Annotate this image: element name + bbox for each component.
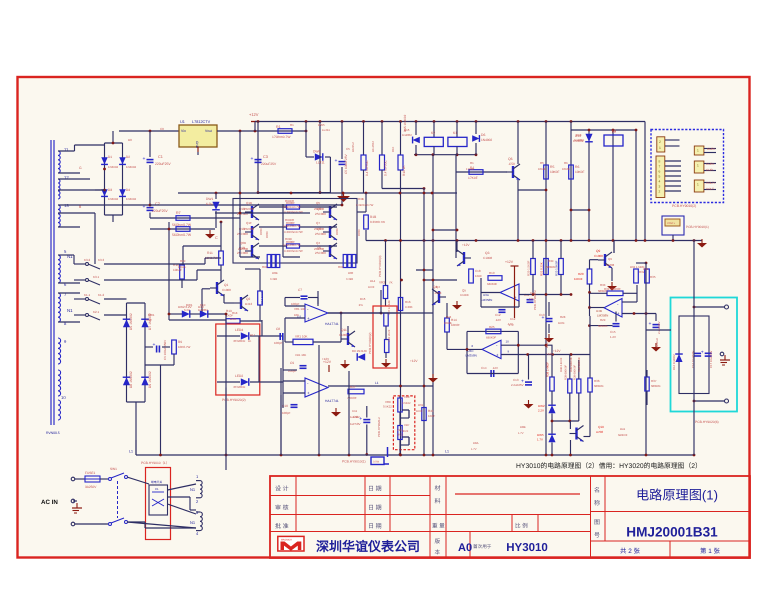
svg-text:PCB.HY9020-2: PCB.HY9020-2 xyxy=(377,417,381,437)
svg-text:1N4002: 1N4002 xyxy=(126,165,137,169)
svg-text:+: + xyxy=(251,156,254,162)
svg-text:0.39Ohm0.7W: 0.39Ohm0.7W xyxy=(284,249,303,253)
svg-text:R000R: R000R xyxy=(285,199,294,203)
svg-text:2SC000: 2SC000 xyxy=(244,207,255,211)
svg-text:共 2 张: 共 2 张 xyxy=(620,547,640,555)
svg-text:R1B: R1B xyxy=(370,215,376,219)
svg-text:R0B: R0B xyxy=(272,271,278,275)
svg-text:3K22: 3K22 xyxy=(397,434,404,437)
svg-text:680K0F: 680K0F xyxy=(546,265,556,269)
svg-text:10K0F: 10K0F xyxy=(550,170,559,174)
svg-text:D16 1N4002: D16 1N4002 xyxy=(672,354,676,370)
svg-text:N1: N1 xyxy=(190,520,196,525)
svg-text:VR8: VR8 xyxy=(404,395,410,399)
svg-text:680K0F: 680K0F xyxy=(486,336,496,340)
svg-text:PCB.HY9010(1): PCB.HY9010(1) xyxy=(342,460,366,464)
svg-text:C13: C13 xyxy=(513,378,519,382)
svg-text:0.39Ohm0.7W: 0.39Ohm0.7W xyxy=(283,225,301,228)
svg-text:10K0F: 10K0F xyxy=(444,321,453,325)
svg-text:R11: R11 xyxy=(207,251,213,255)
svg-text:继电开关: 继电开关 xyxy=(151,480,162,484)
svg-text:R050: R050 xyxy=(265,231,269,238)
svg-text:Vin: Vin xyxy=(181,129,186,133)
svg-text:1K0F: 1K0F xyxy=(428,414,435,418)
svg-text:0.39R0.7W: 0.39R0.7W xyxy=(370,220,385,224)
svg-text:R6: R6 xyxy=(575,165,579,169)
svg-text:2SC000: 2SC000 xyxy=(237,232,248,236)
svg-text:56Ohm0.7W: 56Ohm0.7W xyxy=(172,233,192,237)
svg-text:Q4: Q4 xyxy=(436,285,440,289)
svg-text:首次用于: 首次用于 xyxy=(473,544,492,549)
svg-text:LM358N: LM358N xyxy=(466,354,477,358)
svg-text:R30: R30 xyxy=(548,259,554,263)
svg-text:0.5K22: 0.5K22 xyxy=(402,402,411,405)
svg-text:C1008: C1008 xyxy=(483,256,492,260)
svg-text:R39 680K0F: R39 680K0F xyxy=(570,357,573,372)
svg-text:8: 8 xyxy=(659,160,661,164)
svg-text:R12 1K0F: R12 1K0F xyxy=(260,291,264,304)
svg-text:R10: R10 xyxy=(391,146,395,152)
svg-text:D1: D1 xyxy=(108,155,112,159)
svg-text:LM358N: LM358N xyxy=(597,314,608,318)
svg-text:R1: R1 xyxy=(470,161,474,165)
svg-text:VR8: VR8 xyxy=(385,400,391,404)
svg-text:HA17741: HA17741 xyxy=(325,322,339,326)
svg-text:C1: C1 xyxy=(155,487,159,491)
svg-text:6.2V: 6.2V xyxy=(184,308,190,312)
svg-text:0.39Ohm0.7W: 0.39Ohm0.7W xyxy=(356,204,374,207)
svg-text:0.39Ohm0.7W: 0.39Ohm0.7W xyxy=(283,244,301,247)
svg-text:+: + xyxy=(307,316,310,321)
svg-text:D2: D2 xyxy=(126,155,130,159)
svg-text:A708: A708 xyxy=(596,430,603,434)
svg-text:R14: R14 xyxy=(370,279,376,283)
svg-text:Vout: Vout xyxy=(205,129,212,133)
svg-text:R38 2.4K0F: R38 2.4K0F xyxy=(546,362,550,377)
svg-text:C12: C12 xyxy=(510,317,516,321)
svg-text:680K0F: 680K0F xyxy=(598,324,608,328)
svg-text:1N4002: 1N4002 xyxy=(126,197,137,201)
svg-text:HA17741: HA17741 xyxy=(325,399,339,403)
svg-text:CUR+: CUR+ xyxy=(707,147,716,151)
svg-text:C13: C13 xyxy=(539,313,545,317)
svg-text:CUR-: CUR- xyxy=(706,168,714,172)
svg-text:A24FL8: A24FL8 xyxy=(655,338,659,348)
svg-text:R050: R050 xyxy=(357,229,361,236)
svg-text:1: 1 xyxy=(697,149,699,153)
svg-text:2SC000: 2SC000 xyxy=(314,247,325,251)
svg-text:R9: R9 xyxy=(178,340,182,344)
svg-text:1N4002: 1N4002 xyxy=(198,308,208,312)
svg-text:+: + xyxy=(143,156,146,162)
svg-text:R7: R7 xyxy=(176,211,181,215)
svg-text:R10 2K: R10 2K xyxy=(402,164,406,176)
svg-text:D15: D15 xyxy=(360,297,366,301)
svg-text:PCB.HY9020(2): PCB.HY9020(2) xyxy=(368,332,372,354)
svg-text:MAGNICH: MAGNICH xyxy=(281,538,292,541)
svg-text:K2.1: K2.1 xyxy=(93,310,100,314)
svg-text:L1: L1 xyxy=(129,450,133,454)
svg-text:1N4002: 1N4002 xyxy=(108,197,119,201)
svg-text:日 期: 日 期 xyxy=(368,505,382,512)
svg-text:3A250V: 3A250V xyxy=(85,485,97,489)
svg-text:D3: D3 xyxy=(108,188,112,192)
svg-text:C1: C1 xyxy=(158,155,163,159)
svg-text:R38 2.4K0F: R38 2.4K0F xyxy=(560,357,563,372)
svg-text:日 期: 日 期 xyxy=(368,486,382,493)
svg-text:R000R: R000R xyxy=(285,218,294,222)
svg-text:7K: 7K xyxy=(389,281,393,285)
svg-text:PCB.HY9010(3): PCB.HY9010(3) xyxy=(378,255,382,277)
svg-text:1: 1 xyxy=(659,146,661,150)
svg-text:4: 4 xyxy=(659,180,661,184)
svg-text:A0: A0 xyxy=(458,542,472,554)
svg-text:.12V: .12V xyxy=(495,318,501,322)
svg-text:R19: R19 xyxy=(489,271,495,275)
svg-text:图: 图 xyxy=(594,519,600,526)
svg-text:DW5: DW5 xyxy=(537,433,544,437)
svg-text:D13: D13 xyxy=(576,133,582,137)
svg-text:VR1 10K: VR1 10K xyxy=(294,307,306,311)
svg-text:VOLT+: VOLT+ xyxy=(706,181,716,185)
svg-text:C18: C18 xyxy=(475,269,481,273)
svg-text:料: 料 xyxy=(435,497,441,505)
svg-text:0.47uF50C: 0.47uF50C xyxy=(365,160,369,176)
svg-text:10K0.7W: 10K0.7W xyxy=(178,345,191,349)
svg-text:DW2: DW2 xyxy=(538,404,545,408)
svg-text:17K0F: 17K0F xyxy=(466,167,475,171)
svg-text:2SC000: 2SC000 xyxy=(244,227,255,231)
svg-text:2: 2 xyxy=(659,190,661,194)
svg-text:VR2 2K2F: VR2 2K2F xyxy=(388,329,391,342)
svg-text:VR1 10K: VR1 10K xyxy=(295,335,308,339)
svg-text:C0: C0 xyxy=(160,127,164,131)
svg-text:R20: R20 xyxy=(578,272,584,276)
svg-text:+: + xyxy=(143,204,146,210)
svg-text:680K0F: 680K0F xyxy=(598,289,608,293)
svg-text:C14: C14 xyxy=(481,366,487,370)
svg-text:+12V: +12V xyxy=(249,112,259,117)
svg-text:3: 3 xyxy=(659,185,661,189)
svg-text:Q1: Q1 xyxy=(224,283,228,287)
svg-text:+: + xyxy=(307,391,310,396)
svg-text:+: + xyxy=(496,352,499,357)
svg-text:10K0F: 10K0F xyxy=(575,170,584,174)
svg-text:2SC000: 2SC000 xyxy=(238,247,249,251)
svg-text:K2: K2 xyxy=(431,131,435,135)
svg-text:Q11: Q11 xyxy=(341,328,347,332)
svg-text:PCB.HY9020(6): PCB.HY9020(6) xyxy=(695,420,719,424)
svg-text:.9%: .9% xyxy=(358,303,363,307)
svg-text:R41: R41 xyxy=(620,427,626,431)
svg-text:C11: C11 xyxy=(352,409,357,413)
svg-text:Q3: Q3 xyxy=(485,251,490,255)
svg-text:C1008: C1008 xyxy=(339,333,348,337)
svg-text:R050: R050 xyxy=(259,228,263,235)
svg-text:比 例: 比 例 xyxy=(515,523,528,530)
svg-text:0.39R: 0.39R xyxy=(346,278,353,281)
svg-text:C5 100uF25V: C5 100uF25V xyxy=(344,153,348,174)
svg-text:6.2V: 6.2V xyxy=(206,202,213,206)
svg-text:1K0F: 1K0F xyxy=(416,410,423,413)
svg-text:100pF: 100pF xyxy=(291,302,300,306)
svg-text:R050: R050 xyxy=(335,228,339,235)
svg-text:重 量: 重 量 xyxy=(432,523,445,530)
svg-text:R5: R5 xyxy=(550,165,554,169)
svg-text:R18: R18 xyxy=(232,311,238,315)
svg-text:220uF25V: 220uF25V xyxy=(155,162,171,166)
svg-text:PCB.HY9010(1): PCB.HY9010(1) xyxy=(686,225,709,229)
svg-text:+: + xyxy=(701,350,704,356)
svg-text:17K0F: 17K0F xyxy=(468,176,478,180)
svg-text:DW1: DW1 xyxy=(148,313,155,317)
svg-text:R29 1.5K0F: R29 1.5K0F xyxy=(527,260,531,276)
svg-text:5: 5 xyxy=(659,175,661,179)
svg-text:C12: C12 xyxy=(495,313,501,317)
svg-text:+12V: +12V xyxy=(410,359,418,363)
svg-text:680K0F: 680K0F xyxy=(594,384,604,388)
svg-text:G: G xyxy=(79,166,82,170)
svg-text:U4B: U4B xyxy=(596,309,602,313)
svg-text:R1: R1 xyxy=(276,125,281,129)
svg-text:C1008: C1008 xyxy=(222,288,231,292)
svg-text:C5: C5 xyxy=(346,147,350,151)
svg-text:版: 版 xyxy=(435,538,441,545)
svg-text:2SC000: 2SC000 xyxy=(237,251,248,255)
svg-text:LM358N: LM358N xyxy=(481,298,492,302)
svg-text:R36: R36 xyxy=(594,379,600,383)
svg-text:R00: R00 xyxy=(262,265,268,269)
svg-text:D10: D10 xyxy=(200,303,206,307)
svg-text:本: 本 xyxy=(435,549,441,556)
svg-text:0.39R: 0.39R xyxy=(270,278,277,281)
svg-text:K1.1: K1.1 xyxy=(84,293,91,297)
svg-text:AC IN: AC IN xyxy=(41,499,58,506)
svg-text:U1: U1 xyxy=(180,120,185,124)
svg-text:1N4002: 1N4002 xyxy=(108,165,119,169)
svg-text:10K0F: 10K0F xyxy=(562,167,571,171)
svg-text:Q10: Q10 xyxy=(598,425,604,429)
svg-text:R28: R28 xyxy=(560,315,566,319)
svg-text:D5 1N5002: D5 1N5002 xyxy=(129,313,133,330)
svg-text:10K0F: 10K0F xyxy=(451,323,460,327)
svg-text:LL411: LL411 xyxy=(322,128,330,132)
svg-text:.C50: .C50 xyxy=(508,162,515,166)
svg-text:U3A: U3A xyxy=(483,293,489,297)
svg-text:D0: D0 xyxy=(128,138,132,142)
svg-text:R17: R17 xyxy=(250,333,256,337)
svg-text:1K0F: 1K0F xyxy=(368,286,375,289)
svg-text:R25: R25 xyxy=(489,325,495,329)
svg-text:1: 1 xyxy=(697,183,699,187)
svg-text:17Ohm0.7W: 17Ohm0.7W xyxy=(272,135,291,139)
svg-text:称: 称 xyxy=(594,499,600,507)
svg-text:C3: C3 xyxy=(263,155,268,159)
svg-text:D8 1N5002: D8 1N5002 xyxy=(129,371,133,388)
svg-text:45%RED: 45%RED xyxy=(233,339,246,343)
svg-text:DW1: DW1 xyxy=(206,197,213,201)
svg-text:+: + xyxy=(335,158,338,164)
svg-text:10K2F: 10K2F xyxy=(178,265,187,269)
svg-text:C1008: C1008 xyxy=(606,263,615,267)
svg-text:R39 680K0F: R39 680K0F xyxy=(574,365,577,380)
svg-text:LED4: LED4 xyxy=(235,328,243,332)
svg-text:K3: K3 xyxy=(612,130,616,134)
svg-text:R090: R090 xyxy=(285,237,292,241)
svg-text:2SC000: 2SC000 xyxy=(315,251,326,255)
svg-text:R37: R37 xyxy=(651,379,657,383)
svg-text:680K0F: 680K0F xyxy=(618,434,628,437)
svg-text:10K0F: 10K0F xyxy=(538,167,547,171)
svg-text:2SC000: 2SC000 xyxy=(315,232,326,236)
svg-text:+12V: +12V xyxy=(322,357,329,361)
svg-text:L1: L1 xyxy=(445,450,449,454)
svg-text:1N4002: 1N4002 xyxy=(402,133,412,137)
svg-text:1N4002: 1N4002 xyxy=(481,138,492,142)
svg-text:K3.3: K3.3 xyxy=(98,258,105,262)
svg-text:1.2V: 1.2V xyxy=(610,335,616,339)
svg-text:10: 10 xyxy=(506,340,510,344)
svg-text:Q9: Q9 xyxy=(596,249,600,253)
svg-text:R3B: R3B xyxy=(358,197,364,201)
svg-text:ACJ-FV: ACJ-FV xyxy=(545,338,549,348)
svg-text:D8B: D8B xyxy=(520,425,526,429)
svg-text:A0JPL2: A0JPL2 xyxy=(351,142,355,152)
svg-text:LL411: LL411 xyxy=(316,161,325,165)
svg-text:1K0F: 1K0F xyxy=(230,317,237,321)
svg-text:1uF50V: 1uF50V xyxy=(350,422,361,426)
svg-text:Q1B: Q1B xyxy=(246,201,252,205)
svg-text:VOLT-: VOLT- xyxy=(706,187,715,191)
svg-text:C1008: C1008 xyxy=(460,293,469,297)
svg-text:+12V: +12V xyxy=(546,352,553,356)
svg-text:R00: R00 xyxy=(348,271,354,275)
svg-text:DW6: DW6 xyxy=(313,150,320,154)
svg-text:HMJ20001B31: HMJ20001B31 xyxy=(626,525,718,540)
svg-text:220uF25V: 220uF25V xyxy=(261,162,277,166)
svg-text:1N4002: 1N4002 xyxy=(574,138,584,142)
svg-text:100pF: 100pF xyxy=(274,341,283,345)
svg-text:R5: R5 xyxy=(540,161,544,165)
svg-text:HY3010的电路原理图（2）借用：HY3020的电路原理图: HY3010的电路原理图（2）借用：HY3020的电路原理图（2） xyxy=(516,462,702,470)
svg-text:R39 680K0F: R39 680K0F xyxy=(578,357,581,372)
svg-text:+: + xyxy=(617,311,620,316)
svg-text:VR3: VR3 xyxy=(379,281,385,285)
svg-text:A0.47R2: A0.47R2 xyxy=(371,141,375,152)
svg-text:0.39K: 0.39K xyxy=(405,305,413,309)
svg-text:C11: C11 xyxy=(530,291,535,295)
svg-text:1uF50V: 1uF50V xyxy=(350,415,360,419)
svg-text:45%RED: 45%RED xyxy=(233,385,246,389)
svg-text:VR7: VR7 xyxy=(404,423,410,427)
svg-text:+: + xyxy=(649,321,652,327)
svg-text:D4: D4 xyxy=(126,188,130,192)
svg-text:材: 材 xyxy=(435,484,441,492)
svg-text:1K0F: 1K0F xyxy=(475,274,482,278)
svg-text:1K0F: 1K0F xyxy=(558,321,565,325)
svg-text:C7: C7 xyxy=(298,288,302,292)
svg-text:N1: N1 xyxy=(67,308,73,313)
svg-text:1.7V: 1.7V xyxy=(471,448,477,451)
svg-text:C9: C9 xyxy=(290,361,294,365)
svg-text:0.47uF50C: 0.47uF50C xyxy=(384,160,388,176)
svg-text:R00: R00 xyxy=(338,265,344,269)
svg-text:电路原理图(1): 电路原理图(1) xyxy=(636,488,718,503)
svg-text:R21 0.22K: R21 0.22K xyxy=(540,262,544,276)
svg-text:日 期: 日 期 xyxy=(368,523,382,530)
svg-text:R31: R31 xyxy=(418,403,424,407)
svg-text:2.2V: 2.2V xyxy=(538,409,544,413)
svg-text:0.5W: 0.5W xyxy=(373,461,380,464)
svg-text:R31: R31 xyxy=(428,409,434,413)
svg-text:R27: R27 xyxy=(350,385,356,389)
svg-text:10K: 10K xyxy=(294,313,299,317)
svg-text:Q5: Q5 xyxy=(316,201,320,205)
svg-text:D8 1N4148: D8 1N4148 xyxy=(352,349,367,353)
svg-text:VOLT+: VOLT+ xyxy=(667,222,676,225)
svg-text:R16: R16 xyxy=(405,300,411,304)
svg-text:PCB.HY9010（1）: PCB.HY9010（1） xyxy=(141,461,169,465)
svg-text:.17V: .17V xyxy=(508,323,514,327)
svg-text:LED2: LED2 xyxy=(235,374,243,378)
svg-text:深圳华谊仪表公司: 深圳华谊仪表公司 xyxy=(316,539,420,554)
svg-text:220uF25V: 220uF25V xyxy=(152,209,168,213)
svg-text:Q9: Q9 xyxy=(608,257,612,261)
svg-text:R35: R35 xyxy=(643,267,649,271)
svg-text:K1.2: K1.2 xyxy=(98,293,105,297)
svg-text:Q2: Q2 xyxy=(246,297,250,301)
svg-text:D8A: D8A xyxy=(473,441,479,445)
svg-text:10K0F: 10K0F xyxy=(574,277,583,281)
svg-text:1K: 1K xyxy=(248,340,251,343)
svg-text:0.39Ohm0.7W: 0.39Ohm0.7W xyxy=(284,230,303,234)
svg-text:10: 10 xyxy=(61,395,66,400)
svg-text:Q4: Q4 xyxy=(316,241,320,245)
svg-text:K1: K1 xyxy=(453,131,457,135)
svg-text:FUSE1: FUSE1 xyxy=(85,471,96,475)
svg-text:第 1 张: 第 1 张 xyxy=(700,547,720,555)
svg-text:DW5: DW5 xyxy=(318,123,325,127)
svg-text:C15: C15 xyxy=(610,330,616,334)
svg-text:1.7V: 1.7V xyxy=(518,432,524,435)
svg-text:R10: R10 xyxy=(180,259,186,263)
svg-text:VR1 10K: VR1 10K xyxy=(295,353,306,357)
svg-text:R24: R24 xyxy=(446,315,452,319)
svg-text:K3.1: K3.1 xyxy=(93,275,100,279)
svg-text:680K0F: 680K0F xyxy=(487,282,497,286)
svg-text:2SC000: 2SC000 xyxy=(314,227,325,231)
svg-text:100pF: 100pF xyxy=(282,411,291,415)
svg-text:680K0F: 680K0F xyxy=(651,384,661,388)
svg-text:审 核: 审 核 xyxy=(275,504,289,512)
svg-text:+12V: +12V xyxy=(462,243,470,247)
svg-text:C8: C8 xyxy=(276,327,280,331)
svg-text:Q1F: Q1F xyxy=(246,221,252,225)
svg-text:CUR+: CUR+ xyxy=(706,162,715,166)
svg-text:C1008: C1008 xyxy=(594,254,603,258)
svg-text:R33: R33 xyxy=(600,283,606,287)
svg-text:7: 7 xyxy=(659,165,661,169)
svg-text:K3.2: K3.2 xyxy=(84,258,91,262)
svg-text:R39 680K0F: R39 680K0F xyxy=(565,365,568,380)
svg-text:2: 2 xyxy=(659,140,661,144)
svg-text:1.7V: 1.7V xyxy=(537,438,543,442)
svg-text:2.2uF25V: 2.2uF25V xyxy=(511,383,524,387)
svg-text:批 准: 批 准 xyxy=(275,522,289,530)
svg-text:RVN00.5: RVN00.5 xyxy=(46,431,60,435)
svg-text:.22K: .22K xyxy=(528,297,534,301)
svg-text:D15: D15 xyxy=(404,128,410,132)
